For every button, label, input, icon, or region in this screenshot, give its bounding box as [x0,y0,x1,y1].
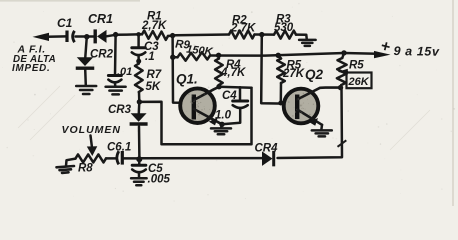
capacitor .01 branch wire [114,35,117,75]
node base branch Q1 [170,33,175,38]
node Q2 base branch top [259,32,264,37]
ground Q1 emitter [221,124,222,128]
diode CR2 branch wire [85,37,87,58]
wire top line to R1 [107,34,143,36]
capacitor C4 [239,87,242,100]
diode CR4 [262,151,273,166]
resistor R9 [173,56,178,59]
svg-text:.1: .1 [145,51,155,63]
svg-text:Q2: Q2 [305,67,324,82]
svg-text:C4: C4 [222,90,237,102]
svg-text:CR4: CR4 [255,143,279,155]
node R9 left [170,55,175,60]
wire .01 to ground [114,83,117,87]
wire C3 to R7 [137,56,140,64]
ground Q2 emitter [320,125,323,130]
slash mark on wire [338,140,347,147]
resistor R8 [76,154,107,162]
capacitor C6 [106,157,115,160]
wire R7 to CR3 node [138,92,141,102]
wire Q2 base vertical [261,35,284,104]
svg-text:Q1.: Q1. [176,72,198,87]
pot wiper arrow and 26K box [347,73,372,89]
node Q2 collector junction [338,85,343,90]
diode CR2 [77,57,94,66]
resistor R5 26K [342,53,344,58]
wire CR4 to Q2 collector [278,88,343,158]
ground R8 left [66,159,76,166]
svg-text:IMPED.: IMPED. [12,63,51,74]
svg-text:26K: 26K [348,76,370,88]
wire R2 to R3 [255,33,275,36]
svg-text:2.7K: 2.7K [230,23,256,35]
svg-text:9 a 15v: 9 a 15v [393,44,440,59]
svg-text:VOLUMEN: VOLUMEN [62,124,122,136]
svg-text:R5: R5 [349,60,364,72]
node .01 branch [113,32,118,37]
svg-text:27K: 27K [282,68,305,80]
node R7/CR3/loop junction [137,99,142,104]
svg-text:530: 530 [274,22,294,34]
resistor R2 [229,31,255,39]
supply arrow +9 a 15v [374,51,391,58]
wire C4 to emitter node [222,109,240,124]
wire +V rail [210,53,377,56]
node C3 branch [136,32,141,37]
svg-text:4,7K: 4,7K [220,67,246,79]
node R5 26K top [341,50,346,55]
node R5 27K top [276,53,281,58]
svg-text:CR2: CR2 [90,49,114,61]
transistor Q1 [180,88,215,123]
wire output to CR4 [139,157,262,160]
diode CR3 [138,102,141,113]
svg-text:.01: .01 [117,66,132,78]
resistor R7 [135,64,143,93]
node Q1 collector junction [216,84,221,89]
capacitor C1 [65,31,68,43]
transistor Q2 [284,89,319,124]
resistor R1 [142,31,168,40]
wire [76,35,95,38]
svg-text:2,7K: 2,7K [141,20,167,32]
svg-text:R7: R7 [147,69,162,81]
node output junction [136,156,142,162]
diode CR1 [93,29,96,43]
capacitor C3 [132,46,146,49]
svg-text:C1: C1 [57,16,73,30]
wire loop to collector node [139,88,251,145]
wire R3 to ground [296,35,307,40]
node Q1 emitter junction [219,122,224,127]
wire CR2 to ground [84,69,87,86]
svg-text:C6.1: C6.1 [107,141,131,153]
svg-text:.005: .005 [148,174,171,186]
node R4 top [216,53,221,58]
svg-text:5K: 5K [146,81,161,93]
wire Q1 base vertical [173,36,182,103]
ground CR2 [76,86,96,94]
svg-text:CR1: CR1 [88,12,113,26]
ground after R3 [299,40,316,46]
svg-text:CR3: CR3 [108,104,132,116]
wire collector node to loop [219,87,252,88]
input arrow A F.I. [33,33,50,41]
ground .01 [106,87,126,95]
capacitor C3 branch wire [137,34,140,47]
node C1/CR2 junction [84,34,89,39]
resistor R5 27K [278,55,281,58]
svg-text:1.0: 1.0 [215,110,232,122]
resistor R3 [274,31,296,39]
resistor R4 [217,55,220,58]
wire CR3 to output node [138,127,141,159]
capacitor C5 [138,158,141,165]
capacitor .01 [108,74,121,77]
svg-text:R8: R8 [78,163,93,175]
wire R1 to R2 [168,35,229,37]
